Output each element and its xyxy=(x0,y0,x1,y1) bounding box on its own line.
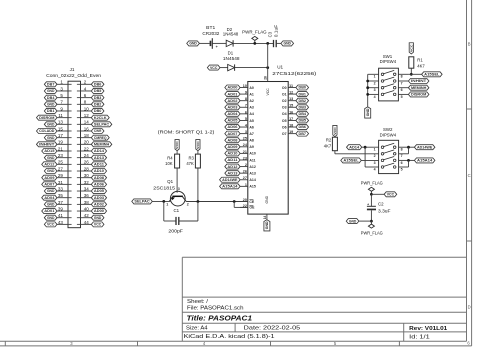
J1 pin 24 label AD13 xyxy=(91,155,106,160)
J1 pin 10 stub xyxy=(77,110,81,112)
svg-text:12: 12 xyxy=(84,113,90,118)
J1 pin 39 stub xyxy=(68,210,72,212)
svg-text:VCC: VCC xyxy=(333,126,337,135)
svg-text:DB7: DB7 xyxy=(299,132,306,136)
global label GND (battery) xyxy=(187,41,200,46)
U1 global label AD11 xyxy=(225,157,240,162)
svg-text:+: + xyxy=(216,45,218,49)
J1 pin 10 wire xyxy=(81,110,92,112)
J1 pin 9 stub xyxy=(68,110,72,112)
sheet frame bottom outer border xyxy=(0,345,472,347)
svg-text:42: 42 xyxy=(84,213,90,218)
svg-text:16: 16 xyxy=(289,110,293,114)
svg-text:A8: A8 xyxy=(249,139,254,143)
svg-text:27: 27 xyxy=(243,176,247,180)
svg-text:2SC1815: 2SC1815 xyxy=(153,186,175,191)
wire VCC node down to U1 pin 28 xyxy=(267,43,269,81)
svg-text:AD04: AD04 xyxy=(44,196,55,200)
J1 pin 1 stub xyxy=(68,83,72,85)
svg-text:2: 2 xyxy=(187,203,189,207)
J1 pin 19 stub xyxy=(68,143,72,145)
J1 pin 6 label DB3 xyxy=(91,95,104,100)
J1 pin 5 label DB4 xyxy=(44,95,57,100)
U1 pin 22 OE wire xyxy=(240,206,248,208)
J1 pin 38 stub xyxy=(77,203,81,205)
U1 pin A4 wire xyxy=(240,113,248,115)
J1 pin 43 wire xyxy=(57,223,68,225)
svg-text:O4: O4 xyxy=(282,112,287,116)
J1 pin 35 label AD04 xyxy=(42,195,57,200)
J1 pin 39 label AD01 xyxy=(42,209,57,214)
svg-text:25: 25 xyxy=(58,160,64,165)
frame zone tick right C|D xyxy=(467,240,472,242)
svg-text:31: 31 xyxy=(58,180,64,185)
SW1 pin 3 wire xyxy=(368,87,379,89)
svg-text:DB1: DB1 xyxy=(299,92,306,96)
junction SW1 pins 3 xyxy=(366,86,369,89)
U1 pin A9 wire xyxy=(240,146,248,148)
svg-text:C1: C1 xyxy=(173,208,179,213)
J1 pin 22 stub xyxy=(77,150,81,152)
switch SW2 body xyxy=(379,140,399,173)
svg-text:AD00: AD00 xyxy=(227,86,237,90)
J1 pin 41 stub xyxy=(68,217,72,219)
svg-text:GND: GND xyxy=(47,203,55,207)
U1 pin A8 wire xyxy=(240,139,248,141)
svg-text:A3: A3 xyxy=(249,106,254,110)
svg-text:A15A14: A15A14 xyxy=(417,159,433,163)
junction AD14 / pin4 branch xyxy=(364,146,367,149)
svg-text:A9: A9 xyxy=(249,145,254,149)
U1 global label AD00 xyxy=(225,85,240,90)
J1 pin 7 label GND xyxy=(44,102,57,107)
J1 pin 24 wire xyxy=(81,157,92,159)
J1 pin 32 stub xyxy=(77,183,81,185)
global label A15SEL (SW1) xyxy=(422,72,443,77)
svg-text:20: 20 xyxy=(84,140,90,145)
svg-text:AD14: AD14 xyxy=(94,149,105,153)
junction C2 bottom / GND xyxy=(370,220,373,223)
svg-text:A15A14: A15A14 xyxy=(222,185,238,189)
svg-text:A15: A15 xyxy=(249,185,255,189)
svg-text:DISROM: DISROM xyxy=(411,93,426,97)
svg-text:32: 32 xyxy=(84,180,90,185)
wire GND to BT1 xyxy=(199,42,209,44)
svg-text:36: 36 xyxy=(84,193,90,198)
svg-text:AD05: AD05 xyxy=(227,119,237,123)
wire SW1 pin8 to A15SEL xyxy=(408,73,421,75)
J1 pin 31 wire xyxy=(57,183,68,185)
svg-text:44: 44 xyxy=(84,220,90,225)
J1 pin 32 wire xyxy=(81,183,92,185)
svg-text:AD08: AD08 xyxy=(94,176,104,180)
U1 global label AD09 xyxy=(225,144,240,149)
svg-text:19: 19 xyxy=(289,130,293,134)
J1 pin 29 stub xyxy=(68,177,72,179)
svg-text:41: 41 xyxy=(58,213,64,218)
wire C3 to GND label xyxy=(276,42,281,44)
J1 pin 21 stub xyxy=(68,150,72,152)
U1 pin A0 wire xyxy=(240,87,248,89)
svg-text:26: 26 xyxy=(84,160,90,165)
svg-text:A11: A11 xyxy=(249,158,255,162)
wire D1 to VCC net vertical xyxy=(235,67,268,69)
svg-text:7: 7 xyxy=(401,154,403,158)
J1 pin 15 stub xyxy=(68,130,72,132)
svg-text:47K: 47K xyxy=(186,161,194,166)
svg-text:AD10: AD10 xyxy=(94,169,104,173)
svg-text:AD12: AD12 xyxy=(227,165,237,169)
svg-text:AD15: AD15 xyxy=(44,149,54,153)
svg-text:A13: A13 xyxy=(249,171,255,175)
SW1 pin 2 wire xyxy=(368,80,379,82)
svg-text:O0: O0 xyxy=(282,86,287,90)
svg-text:MEMINH: MEMINH xyxy=(411,86,427,90)
wire C1 left leg xyxy=(163,201,165,221)
svg-text:13: 13 xyxy=(58,120,64,125)
svg-text:DB1: DB1 xyxy=(47,109,54,113)
J1 pin 28 wire xyxy=(81,170,92,172)
svg-text:9: 9 xyxy=(245,90,247,94)
svg-text:AD04: AD04 xyxy=(227,112,238,116)
svg-text:3: 3 xyxy=(374,88,376,92)
sheet frame right inner border xyxy=(466,0,468,341)
svg-text:27C512(62256): 27C512(62256) xyxy=(272,71,317,76)
svg-text:14: 14 xyxy=(84,120,90,125)
svg-text:R4: R4 xyxy=(167,156,173,161)
J1 pin 7 stub xyxy=(68,103,72,105)
svg-text:1N4548: 1N4548 xyxy=(223,56,240,61)
J1 pin 24 stub xyxy=(77,157,81,159)
svg-text:VCC: VCC xyxy=(266,88,270,96)
title block row line below Title xyxy=(182,322,466,324)
svg-text:B: B xyxy=(468,41,471,46)
svg-text:VCC: VCC xyxy=(196,140,200,149)
wire GND label to C2 node xyxy=(359,220,372,222)
J1 pin 23 label GND xyxy=(44,155,57,160)
svg-text:DB5: DB5 xyxy=(299,119,306,123)
transistor Q1 symbol xyxy=(170,191,185,206)
svg-text:DISROM: DISROM xyxy=(39,116,54,120)
svg-text:1: 1 xyxy=(166,203,168,207)
wire VCC to D1 xyxy=(220,67,228,69)
svg-text:18: 18 xyxy=(84,133,90,138)
svg-text:A0: A0 xyxy=(249,86,254,90)
title block row line above Sheet xyxy=(182,296,466,298)
U1 global label AD05 xyxy=(225,118,240,123)
svg-text:A5: A5 xyxy=(249,119,254,123)
svg-text:C: C xyxy=(468,173,471,178)
global label DISROM (SW1 pin5) xyxy=(408,92,429,97)
svg-text:27: 27 xyxy=(58,166,64,171)
J1 pin 43 stub xyxy=(68,223,72,225)
svg-text:O6: O6 xyxy=(282,125,287,129)
svg-text:INHINT: INHINT xyxy=(411,79,427,83)
J1 pin 20 stub xyxy=(77,143,81,145)
U1 global label AD08 xyxy=(225,138,240,143)
svg-text:R1: R1 xyxy=(417,57,423,62)
svg-text:16: 16 xyxy=(84,126,90,131)
J1 pin 13 wire xyxy=(57,123,68,125)
svg-text:VCC: VCC xyxy=(94,223,102,227)
J1 pin 3 label GND xyxy=(44,88,57,93)
J1 pin 30 stub xyxy=(77,177,81,179)
svg-text:3: 3 xyxy=(245,130,247,134)
J1 pin 28 label AD10 xyxy=(91,169,106,174)
J1 pin 21 wire xyxy=(57,150,68,152)
svg-text:DB3: DB3 xyxy=(299,105,306,109)
svg-text:14: 14 xyxy=(263,215,267,219)
svg-text:AD07: AD07 xyxy=(227,132,237,136)
svg-text:5: 5 xyxy=(245,117,247,121)
power flag PWR_FLAG (top) symbol xyxy=(254,40,256,43)
J1 pin 34 label AD05 xyxy=(91,189,106,194)
sheet frame right outer border xyxy=(471,0,473,346)
svg-text:25: 25 xyxy=(243,137,247,141)
power label VCC above R2 (vertical) xyxy=(333,125,337,136)
svg-text:37: 37 xyxy=(58,200,64,205)
svg-text:VCC: VCC xyxy=(210,66,218,70)
svg-text:AD08: AD08 xyxy=(227,138,237,142)
J1 pin 18 wire xyxy=(81,137,92,139)
J1 pin 21 label AD15 xyxy=(42,149,57,154)
U1 pin O3 wire xyxy=(288,106,296,108)
power label VCC above R1 (vertical) xyxy=(409,43,413,54)
J1 pin 3 wire xyxy=(57,90,68,92)
J1 pin 4 label DB5 xyxy=(91,88,104,93)
svg-text:30: 30 xyxy=(84,173,90,178)
svg-text:3: 3 xyxy=(178,187,180,191)
svg-text:DB0: DB0 xyxy=(94,109,101,113)
svg-text:D: D xyxy=(468,304,471,309)
J1 pin 40 stub xyxy=(77,210,81,212)
J1 pin 27 wire xyxy=(57,170,68,172)
svg-text:15: 15 xyxy=(58,126,64,131)
svg-text:DB5: DB5 xyxy=(94,89,101,93)
J1 pin 1 label DB7 xyxy=(44,82,57,87)
junction SW1 pins 2 xyxy=(366,80,369,83)
svg-text:GND: GND xyxy=(94,216,102,220)
U1 global label DB5 xyxy=(296,118,309,123)
wire R3 to Q1 collector node xyxy=(197,168,199,202)
U1 pin A10 wire xyxy=(240,152,248,154)
svg-text:AD11: AD11 xyxy=(227,158,237,162)
U1 global label DB7 xyxy=(296,131,309,136)
junction Q1 base / C1 xyxy=(162,200,165,203)
svg-text:AD00: AD00 xyxy=(94,209,104,213)
svg-text:6: 6 xyxy=(401,161,403,165)
U1 pin 20 CE wire xyxy=(240,201,248,203)
J1 pin 26 stub xyxy=(77,163,81,165)
svg-text:DB7: DB7 xyxy=(47,83,54,87)
wire SELPAC to Q1 xyxy=(152,200,170,202)
wire AD14 branch down to pin 4 xyxy=(364,147,366,167)
svg-text:A15SEL: A15SEL xyxy=(424,73,440,77)
SW1 pin 6 wire xyxy=(398,87,408,89)
svg-text:15: 15 xyxy=(289,104,293,108)
svg-text:AD02: AD02 xyxy=(94,203,104,207)
svg-text:GND: GND xyxy=(47,189,55,193)
svg-text:C3: C3 xyxy=(268,31,273,37)
sheet frame bottom inner border xyxy=(0,340,467,342)
svg-text:35: 35 xyxy=(58,193,64,198)
J1 pin 36 wire xyxy=(81,197,92,199)
J1 pin 16 label CWR xyxy=(91,128,104,133)
U1 global label AD13 xyxy=(225,171,240,176)
svg-text:+: + xyxy=(367,202,369,206)
U1 global label AD06 xyxy=(225,125,240,130)
svg-text:O3: O3 xyxy=(282,106,287,110)
svg-text:Sheet: /: Sheet: / xyxy=(187,299,209,305)
wire R4 to Q1 base xyxy=(176,168,178,193)
U1 pin A3 wire xyxy=(240,106,248,108)
U1 global label DB3 xyxy=(296,105,309,110)
J1 pin 2 label DB6 xyxy=(91,82,104,87)
U1 global label AD04 xyxy=(225,111,240,116)
svg-text:O5: O5 xyxy=(282,119,287,123)
svg-text:1: 1 xyxy=(374,148,376,152)
junction CE / OE branch xyxy=(233,200,236,203)
switch SW1 body xyxy=(379,68,399,101)
J1 pin 42 stub xyxy=(77,217,81,219)
J1 pin 12 stub xyxy=(77,117,81,119)
U1 pin O0 wire xyxy=(288,87,296,89)
J1 pin 17 label GND xyxy=(44,135,57,140)
global label AD14 (SW2) xyxy=(347,145,362,150)
J1 pin 35 wire xyxy=(57,197,68,199)
J1 pin 5 stub xyxy=(68,97,72,99)
J1 pin 15 wire xyxy=(57,130,68,132)
svg-text:A12: A12 xyxy=(249,165,255,169)
J1 pin 10 label DB0 xyxy=(91,108,104,113)
svg-text:38: 38 xyxy=(84,200,90,205)
J1 pin 15 label COLADD xyxy=(36,128,57,133)
battery BT1 symbol xyxy=(210,41,212,46)
svg-text:VCC: VCC xyxy=(47,223,55,227)
svg-text:VCC: VCC xyxy=(387,193,395,197)
J1 pin 40 label AD00 xyxy=(91,209,106,214)
svg-text:28: 28 xyxy=(263,76,267,80)
resistor R1 xyxy=(409,57,414,68)
svg-text:3.3uF: 3.3uF xyxy=(378,209,391,214)
wire pin7 up to pin8 node xyxy=(399,153,409,155)
J1 pin 25 stub xyxy=(68,163,72,165)
svg-text:A2: A2 xyxy=(249,99,254,103)
svg-text:GND: GND xyxy=(349,219,357,223)
J1 pin 4 stub xyxy=(77,90,81,92)
frame zone tick right B|C xyxy=(467,108,472,110)
svg-text:1: 1 xyxy=(374,75,376,79)
U1 pin O4 wire xyxy=(288,113,296,115)
svg-text:A14: A14 xyxy=(249,178,255,182)
svg-text:DB6: DB6 xyxy=(94,83,101,87)
J1 pin 28 stub xyxy=(77,170,81,172)
frame zone tick bottom 5|6 xyxy=(398,341,400,346)
svg-text:22: 22 xyxy=(84,146,90,151)
svg-text:O1: O1 xyxy=(282,92,287,96)
capacitor C2 symbol (polarized) xyxy=(367,205,376,207)
J1 pin 34 stub xyxy=(77,190,81,192)
SW1 pin 7 wire xyxy=(398,80,408,82)
svg-text:4: 4 xyxy=(374,95,376,99)
svg-text:CR2032: CR2032 xyxy=(202,31,220,36)
SW2 switch element 2 xyxy=(381,153,384,156)
J1 pin 33 wire xyxy=(57,190,68,192)
J1 pin 18 label CMREQ xyxy=(91,135,109,140)
J1 pin 8 wire xyxy=(81,103,92,105)
svg-text:GND: GND xyxy=(189,42,197,46)
U1 pin A12 wire xyxy=(240,166,248,168)
J1 pin 6 stub xyxy=(77,97,81,99)
SW1 pin 1 wire xyxy=(368,73,379,75)
resistor R2 xyxy=(332,137,337,151)
U1 pin A1 wire xyxy=(240,93,248,95)
J1 pin 37 label GND xyxy=(44,202,57,207)
svg-text:A6: A6 xyxy=(249,125,254,129)
svg-text:INHINT: INHINT xyxy=(39,143,55,147)
svg-text:(ROM: SHORT Q1 1-2): (ROM: SHORT Q1 1-2) xyxy=(158,129,215,134)
J1 pin 2 wire xyxy=(81,83,92,85)
svg-text:O7: O7 xyxy=(282,132,287,136)
J1 pin 13 stub xyxy=(68,123,72,125)
svg-text:21: 21 xyxy=(58,146,64,151)
global label VCC (D1) xyxy=(207,65,220,70)
U1 pin 14 GND wire xyxy=(266,214,268,220)
svg-text:GND: GND xyxy=(265,221,269,229)
U1 global label DB1 xyxy=(296,92,309,97)
svg-text:24: 24 xyxy=(84,153,90,158)
svg-text:R3: R3 xyxy=(188,156,194,161)
junction A15A14 / pin5 branch xyxy=(407,159,410,162)
title block divider Size|Date xyxy=(234,323,236,332)
IC U1 body xyxy=(248,82,288,215)
title block row line below Size/Date xyxy=(182,331,466,333)
svg-text:GND: GND xyxy=(366,108,370,116)
junction R3 / collector xyxy=(197,200,200,203)
J1 pin 8 label DB2 xyxy=(91,102,104,107)
resistor R4 xyxy=(175,154,180,168)
J1 pin 26 wire xyxy=(81,163,92,165)
junction AD14WE / pin7 branch xyxy=(407,146,410,149)
U1 global label AD03 xyxy=(225,105,240,110)
SW1 pin 4 wire xyxy=(368,93,379,95)
svg-text:23: 23 xyxy=(243,156,247,160)
wire C2 bottom to GND node xyxy=(370,210,372,221)
J1 pin 11 stub xyxy=(68,117,72,119)
svg-text:GND: GND xyxy=(265,195,269,203)
svg-text:3: 3 xyxy=(374,161,376,165)
J1 pin 22 wire xyxy=(81,150,92,152)
global label A15A14 (SW2) xyxy=(414,158,435,163)
svg-text:DB2: DB2 xyxy=(299,99,306,103)
J1 pin 44 wire xyxy=(81,223,92,225)
U1 pin A15 wire xyxy=(240,185,248,187)
svg-text:AD06: AD06 xyxy=(227,125,237,129)
J1 pin 16 wire xyxy=(81,130,92,132)
svg-text:19: 19 xyxy=(58,140,64,145)
svg-text:2: 2 xyxy=(245,163,247,167)
frame zone tick bottom 4|5 xyxy=(270,341,272,346)
svg-text:8: 8 xyxy=(401,148,403,152)
svg-text:GND: GND xyxy=(47,136,55,140)
svg-text:1N4548: 1N4548 xyxy=(223,32,239,37)
J1 pin 14 wire xyxy=(81,123,92,125)
svg-text:10: 10 xyxy=(243,84,247,88)
wire D2 to C3 xyxy=(233,42,273,44)
global label A15SEL (SW2) xyxy=(341,158,362,163)
svg-text:7: 7 xyxy=(245,104,247,108)
svg-text:29: 29 xyxy=(58,173,64,178)
